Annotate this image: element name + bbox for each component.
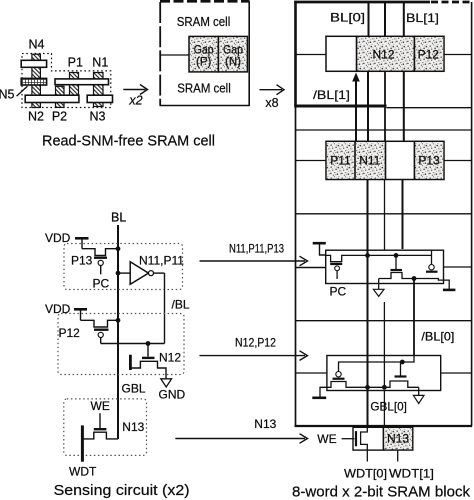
wire VDD stem PC [320, 245, 326, 256]
node N12 row box [326, 36, 444, 71]
node P11 row box [326, 141, 444, 179]
node Gap(N) box [218, 36, 247, 72]
svg-text:x2: x2 [128, 94, 142, 108]
svg-text:BL: BL [111, 211, 126, 225]
wire WDT[1] stem [397, 450, 399, 461]
svg-text:Read-SNM-free SRAM cell: Read-SNM-free SRAM cell [42, 133, 215, 150]
power VDD bar PC [313, 242, 326, 245]
transistor P12 in block [327, 372, 367, 388]
wire right edge [248, 1, 250, 105]
svg-text:P2: P2 [52, 110, 67, 124]
wire VDD2 stem [80, 311, 82, 321]
node N5 callout line [17, 86, 28, 96]
svg-text:N11,P11: N11,P11 [139, 253, 184, 267]
node N5 bar (cross-hatched) [21, 78, 46, 85]
svg-text:Sensing circuit (x2): Sensing circuit (x2) [54, 482, 190, 499]
svg-text:P12: P12 [59, 326, 81, 340]
transistor N11 in block [379, 255, 414, 278]
svg-text:P1: P1 [68, 56, 83, 70]
wire BL[0] long vertical [367, 180, 369, 427]
wire arrow N13 [175, 434, 307, 444]
transistor N1/N3 poly bar [94, 73, 104, 107]
svg-text:VDD: VDD [45, 231, 71, 245]
svg-text:N13: N13 [254, 417, 276, 431]
svg-text:N12: N12 [159, 351, 181, 365]
transistor P12 [81, 320, 119, 343]
svg-text:P11: P11 [330, 154, 351, 168]
svg-text:WE: WE [317, 432, 336, 446]
wire VDD1 stem [81, 240, 83, 249]
node junction dot BL-P12 [116, 318, 121, 323]
wire BL[1] lower segment [402, 180, 404, 250]
op-amp inverter N11,P11 [118, 262, 165, 285]
svg-text:/BL[1]: /BL[1] [313, 88, 350, 102]
transistor P13 in block [326, 255, 432, 279]
transistor N13 [83, 413, 118, 439]
node junction dot /BL0 tap [412, 276, 417, 281]
wire read row right stub [441, 372, 472, 374]
wire row1 right stub [444, 54, 472, 56]
wire block left edge thick top [294, 1, 297, 106]
wire /BL vertical [164, 273, 166, 343]
wire x2 arrow [123, 85, 147, 95]
wire BL vertical [117, 225, 119, 439]
node dashed box write section [64, 399, 147, 456]
transistor N12 in block [367, 362, 419, 387]
svg-text:WDT[1]: WDT[1] [389, 467, 434, 481]
transistor P2 poly bar [56, 86, 65, 107]
svg-text:SRAM cell: SRAM cell [177, 14, 231, 29]
wire diffusion bar top-left [21, 60, 46, 67]
transistor P13 [82, 249, 118, 275]
svg-text:BL[1]: BL[1] [406, 11, 439, 25]
svg-text:N12,P12: N12,P12 [235, 336, 276, 350]
wire GBL[0] upper segment [383, 302, 385, 387]
node junction dot gate tap [400, 360, 405, 365]
wire /BL[0] mid segment [384, 71, 386, 141]
svg-text:N2: N2 [28, 110, 44, 124]
node PC circuit box [326, 250, 444, 283]
ground arrow read-right [413, 387, 424, 403]
svg-text:N13: N13 [122, 420, 144, 434]
wire PC gate input [296, 267, 326, 269]
svg-text:N13: N13 [387, 431, 409, 445]
wire block bottom edge [295, 425, 473, 427]
svg-text:Gap: Gap [223, 45, 243, 57]
wire /BL feedback horizontal [101, 343, 165, 345]
svg-text:VDD: VDD [45, 302, 71, 316]
wire /BL[1] with arrowhead [352, 73, 360, 142]
wire /BL[0] top segment [384, 2, 386, 36]
wire BL[0] mid segment [367, 71, 369, 141]
svg-text:N3: N3 [90, 110, 106, 124]
svg-text:SRAM cell: SRAM cell [177, 80, 231, 95]
ground arrow PC-left [373, 279, 384, 297]
node junction dot rail-BL0 [365, 253, 370, 258]
wire PC row right stub [444, 266, 472, 268]
wire /BL[0] lower segment [384, 180, 386, 251]
node WDT terminal bar [81, 425, 84, 461]
transistor P1 poly bar [70, 73, 79, 96]
wire read row left stub [296, 372, 327, 374]
node WE transistor box [353, 427, 383, 450]
ground GND arrow [161, 379, 172, 387]
svg-text:(N): (N) [225, 57, 241, 69]
wire /BL[0] vertical to read circuit [413, 279, 415, 356]
wire row divider 2 [296, 129, 472, 131]
svg-text:/BL: /BL [172, 298, 190, 312]
wire top edge (dashed) [160, 0, 250, 3]
node junction dot BL-inverter [116, 271, 121, 276]
wire arrow N11,P11,P13 [200, 256, 308, 266]
svg-text:WDT[0]: WDT[0] [344, 467, 387, 481]
wire mid divider [160, 54, 189, 56]
wire row divider 4 [296, 320, 472, 322]
wire block top edge (thick + dashed end) [294, 1, 430, 4]
wire row2 left stub [296, 160, 327, 162]
wire block left edge lower [295, 106, 297, 426]
transistor WE (rotated) [342, 426, 368, 461]
svg-text:WDT: WDT [69, 465, 97, 479]
node junction dot N12 gate [146, 341, 151, 346]
node N13 box in block [383, 427, 412, 450]
svg-text:GBL[0]: GBL[0] [370, 400, 407, 414]
svg-text:P13: P13 [71, 254, 93, 268]
wire word1 thick bottom [294, 105, 386, 108]
node GBL terminal bar [129, 355, 132, 370]
node junction dot BL-P13 [116, 246, 121, 251]
wire bottom diffusion bar left [25, 95, 79, 102]
svg-text:BL[0]: BL[0] [330, 11, 365, 25]
svg-text:N5: N5 [0, 88, 15, 102]
wire row divider 3 [296, 213, 472, 215]
wire GBL[0] lower segment [383, 391, 385, 428]
svg-text:N1: N1 [92, 56, 108, 70]
node dashed box precharge section [64, 244, 183, 290]
svg-text:N11: N11 [359, 154, 380, 168]
node junction dot rail-gate [394, 253, 399, 258]
transistor P11 in block [414, 250, 449, 289]
wire word1 bottom thin continuation [387, 107, 472, 109]
svg-text:P12: P12 [418, 47, 440, 61]
power VDD2 bar [74, 308, 87, 311]
svg-text:8-word x 2-bit SRAM block: 8-word x 2-bit SRAM block [292, 484, 470, 500]
svg-text:GBL: GBL [122, 382, 146, 396]
svg-text:Gap: Gap [194, 45, 214, 57]
svg-text:x8: x8 [265, 96, 278, 110]
wire arrow N12,P12 [200, 351, 308, 361]
node cell-boundary (dotted L outline) [22, 54, 111, 108]
power VDD1 bar [75, 237, 89, 240]
wire x8 arrow [260, 85, 285, 95]
node junction dot rail-GBL [382, 385, 387, 390]
wire row1 left stub [296, 54, 327, 56]
node read circuit box [327, 356, 441, 391]
svg-text:P13: P13 [418, 154, 440, 168]
wire BL[1] top segment [403, 2, 405, 36]
svg-text:N11,P11,P13: N11,P11,P13 [229, 242, 284, 256]
ground bar PC-right [443, 289, 456, 292]
transistor N4/N2 poly bar [32, 54, 41, 107]
wire BL[1] mid segment [403, 71, 405, 141]
svg-text:N4: N4 [29, 38, 45, 52]
node junction dot rail-BL0-2 [365, 385, 370, 390]
ground bar read-left [320, 387, 327, 396]
wire bottom diffusion bar right [87, 95, 112, 102]
wire diffusion bar right [55, 79, 109, 85]
wire BL[0] top segment [368, 2, 370, 36]
svg-text:PC: PC [93, 277, 110, 291]
wire bottom edge [160, 105, 250, 107]
node Gap(P) box [189, 36, 218, 72]
wire block right edge [471, 2, 473, 426]
wire row2 right stub [444, 160, 472, 162]
svg-text:(P): (P) [196, 57, 212, 69]
svg-text:/BL[0]: /BL[0] [421, 330, 454, 344]
wire /BL0 internal [339, 356, 415, 372]
svg-text:N12: N12 [372, 47, 394, 61]
svg-text:PC: PC [330, 285, 347, 299]
transistor N12 [131, 344, 166, 379]
svg-text:GND: GND [159, 388, 186, 402]
wire left edge (dashed) [159, 2, 161, 106]
svg-text:WE: WE [91, 399, 110, 413]
node dashed box keeper section [58, 314, 184, 375]
